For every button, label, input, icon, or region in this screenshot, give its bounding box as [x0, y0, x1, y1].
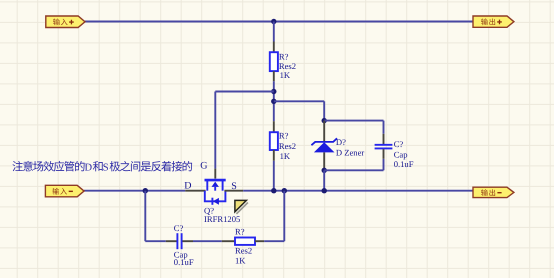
resistor R3 pin 2 — [255, 240, 264, 242]
svg-text:D?: D? — [336, 137, 346, 147]
port 输入- — [45, 185, 84, 197]
svg-text:D Zener: D Zener — [336, 148, 365, 158]
transistor Q1 drain pin — [185, 190, 205, 192]
transistor Q1 (MOSFET IRFR1205) — [205, 180, 226, 205]
wire — [85, 21, 473, 23]
svg-text:0.1uF: 0.1uF — [174, 257, 194, 267]
node: RC branch top — [282, 188, 287, 193]
wire — [324, 159, 383, 171]
capacitor C2 — [375, 145, 393, 149]
transistor Q1 gate pin — [214, 169, 216, 179]
resistor R3 pin 1 — [222, 240, 235, 242]
resistor R1 pin 2 — [273, 71, 275, 81]
node: zener top — [322, 118, 327, 123]
wire — [273, 81, 275, 121]
svg-text:R?: R? — [235, 227, 245, 237]
no-ERC marker — [235, 200, 248, 214]
zener D1 pin 2 — [323, 152, 325, 168]
port 输出+ — [473, 16, 514, 27]
capacitor C2 pin 1 — [383, 134, 385, 144]
wire — [273, 22, 275, 42]
svg-text:IRFR1205: IRFR1205 — [204, 214, 240, 224]
svg-text:C?: C? — [394, 139, 404, 149]
wire — [215, 92, 273, 169]
capacitor C3 pin 2 — [182, 240, 193, 242]
capacitor C2 pin 2 — [383, 149, 385, 159]
capacitor C3 pin 1 — [166, 240, 177, 242]
wire — [243, 190, 473, 192]
wire — [84, 190, 185, 192]
wire — [264, 191, 284, 242]
port 输出- — [473, 187, 514, 197]
transistor Q1 designator Q? IRFR1205 — [204, 205, 240, 224]
resistor R3 — [235, 238, 255, 245]
resistor R2 pin 1 — [273, 121, 275, 132]
transistor Q1 source pin — [224, 190, 243, 192]
svg-text:Res2: Res2 — [279, 141, 296, 151]
wire — [274, 101, 324, 120]
wire — [324, 121, 383, 134]
zener diode D1 — [311, 138, 337, 152]
svg-text:Res2: Res2 — [235, 246, 252, 256]
svg-text:0.1uF: 0.1uF — [394, 159, 414, 169]
zener D1 pin 1 — [323, 121, 325, 142]
svg-text:D: D — [184, 181, 191, 192]
resistor R2 pin 2 — [273, 150, 275, 161]
resistor R2 — [270, 132, 278, 150]
resistor R2 value labels R? Res2 1K — [279, 130, 296, 161]
resistor R1 pin 1 — [273, 42, 275, 53]
svg-text:G: G — [200, 160, 207, 171]
svg-text:R?: R? — [279, 130, 289, 140]
svg-text:1K: 1K — [235, 255, 246, 265]
resistor R1 value labels R? Res2 1K — [279, 51, 296, 80]
node: zener bottom rail — [322, 188, 327, 193]
capacitor C3 labels C? Cap 0.1uF — [174, 223, 194, 267]
resistor R3 labels R? Res2 1K — [235, 227, 252, 266]
wire — [323, 170, 325, 190]
svg-text:S: S — [103, 163, 109, 174]
zener D1 labels D? D Zener — [336, 137, 365, 157]
svg-text:R?: R? — [279, 51, 289, 61]
node: zener bottom — [322, 168, 327, 173]
node: R2 bottom — [271, 188, 276, 193]
svg-text:1K: 1K — [280, 151, 291, 161]
node A (gate branch) — [271, 89, 276, 94]
resistor R1 — [270, 52, 278, 71]
svg-text:Cap: Cap — [394, 149, 408, 159]
svg-text:D: D — [85, 163, 93, 174]
note text: D/S reversed warning — [12, 161, 192, 174]
wire — [145, 191, 166, 242]
capacitor C3 — [177, 233, 181, 249]
node: bottom branch tap — [143, 188, 148, 193]
node B (zener branch) — [271, 99, 276, 104]
transistor Q1 pin labels G D S — [184, 160, 237, 192]
capacitor C2 labels C? Cap 0.1uF — [394, 139, 414, 169]
port 输入+ — [46, 16, 85, 28]
svg-text:1K: 1K — [280, 70, 291, 80]
svg-text:C?: C? — [174, 223, 184, 233]
node: top junction — [271, 19, 276, 24]
wire — [273, 161, 275, 191]
wire — [193, 240, 222, 242]
